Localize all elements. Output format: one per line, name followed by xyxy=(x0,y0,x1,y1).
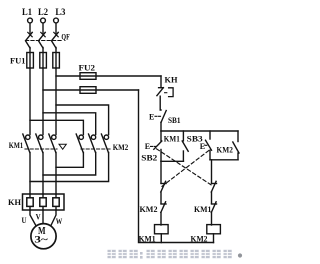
svg-text:KM2: KM2 xyxy=(140,204,158,214)
svg-text:KM1: KM1 xyxy=(9,141,24,150)
svg-text:KH: KH xyxy=(165,75,178,85)
svg-text:KM2: KM2 xyxy=(217,144,233,154)
svg-text:QF: QF xyxy=(61,32,69,41)
svg-text:SB3: SB3 xyxy=(187,134,203,144)
svg-text:SB1: SB1 xyxy=(168,115,181,125)
svg-text:KH: KH xyxy=(8,197,21,207)
svg-text:L2: L2 xyxy=(38,7,48,17)
svg-text:3~: 3~ xyxy=(34,236,47,246)
svg-text:U: U xyxy=(22,215,27,225)
svg-text:KM1: KM1 xyxy=(194,204,211,214)
svg-text:KM1: KM1 xyxy=(164,134,180,144)
svg-text:W: W xyxy=(56,216,63,226)
svg-text:L3: L3 xyxy=(55,7,65,17)
svg-text:KM2: KM2 xyxy=(113,143,129,152)
svg-text:FU2: FU2 xyxy=(79,63,96,73)
svg-text:E: E xyxy=(149,113,154,122)
svg-text:L1: L1 xyxy=(22,7,32,17)
svg-text:V: V xyxy=(36,212,42,222)
svg-text:E: E xyxy=(145,142,150,151)
svg-text:SB2: SB2 xyxy=(141,153,157,163)
svg-text:FU1: FU1 xyxy=(10,56,26,66)
